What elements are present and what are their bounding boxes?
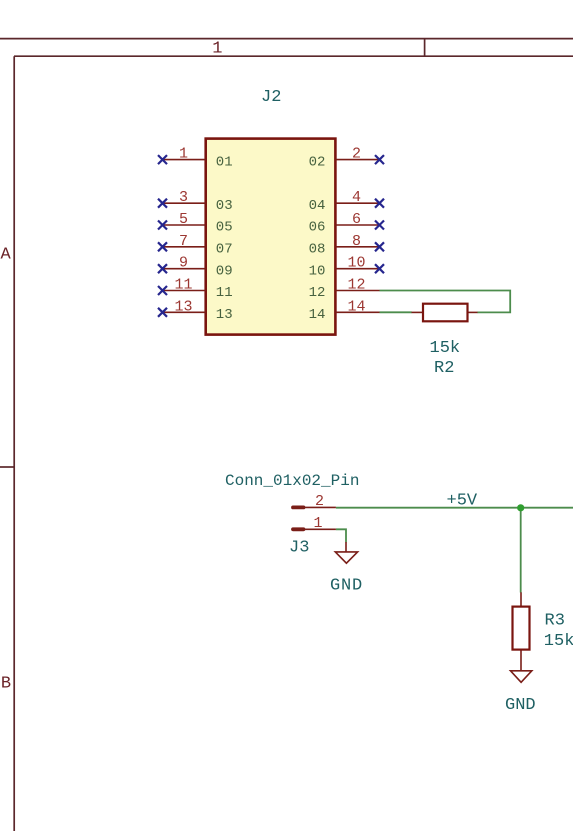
- svg-text:04: 04: [309, 198, 326, 214]
- svg-text:1: 1: [179, 146, 188, 163]
- svg-text:GND: GND: [505, 696, 536, 715]
- svg-text:10: 10: [309, 263, 326, 279]
- svg-text:9: 9: [179, 255, 188, 272]
- svg-text:06: 06: [309, 220, 326, 236]
- svg-text:5: 5: [179, 211, 188, 228]
- svg-text:01: 01: [216, 154, 233, 170]
- svg-text:10: 10: [347, 255, 365, 272]
- svg-text:R2: R2: [434, 359, 454, 378]
- svg-text:15k: 15k: [544, 632, 573, 651]
- svg-text:1: 1: [212, 40, 222, 59]
- svg-text:8: 8: [352, 233, 361, 250]
- svg-text:2: 2: [315, 493, 324, 510]
- svg-text:11: 11: [174, 277, 192, 294]
- svg-text:+5V: +5V: [447, 492, 478, 511]
- svg-text:14: 14: [347, 298, 365, 315]
- svg-text:R3: R3: [545, 612, 565, 631]
- svg-text:13: 13: [174, 298, 192, 315]
- svg-text:A: A: [0, 246, 11, 265]
- svg-text:07: 07: [216, 242, 233, 258]
- svg-text:7: 7: [179, 233, 188, 250]
- svg-text:05: 05: [216, 220, 233, 236]
- svg-text:02: 02: [309, 154, 326, 170]
- svg-text:1: 1: [313, 515, 322, 532]
- svg-text:J2: J2: [261, 88, 281, 107]
- svg-text:08: 08: [309, 242, 326, 258]
- svg-text:GND: GND: [330, 577, 363, 596]
- svg-text:Conn_01x02_Pin: Conn_01x02_Pin: [225, 472, 359, 490]
- svg-text:03: 03: [216, 198, 233, 214]
- svg-text:12: 12: [347, 277, 365, 294]
- svg-text:3: 3: [179, 189, 188, 206]
- svg-text:4: 4: [352, 189, 361, 206]
- svg-text:15k: 15k: [430, 339, 461, 358]
- svg-text:2: 2: [352, 146, 361, 163]
- svg-text:B: B: [1, 675, 11, 694]
- svg-text:12: 12: [309, 285, 326, 301]
- svg-text:14: 14: [309, 307, 326, 323]
- svg-text:13: 13: [216, 307, 233, 323]
- svg-text:6: 6: [352, 211, 361, 228]
- svg-text:J3: J3: [289, 539, 309, 558]
- svg-text:09: 09: [216, 263, 233, 279]
- svg-text:11: 11: [216, 285, 233, 301]
